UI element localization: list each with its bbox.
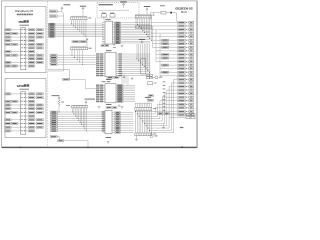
page background [0, 0, 200, 150]
wire S2 fan-out bus toward risers [136, 112, 174, 133]
U3 right pin bus wires with tiny labels [118, 53, 151, 76]
label osc small [160, 4, 165, 7]
capacitor C1 small box [148, 82, 157, 85]
MCU/CN pin row 10 [156, 53, 194, 55]
trimmer VR1 symbol [99, 10, 129, 17]
connector J2 pin row 2 with net labels [21, 97, 43, 99]
heading PIN number [19, 20, 29, 24]
MCU/CN pin row 3 [150, 28, 193, 30]
GPIO panel box [5, 79, 46, 138]
connector J2 pin row 10 with net labels [5, 126, 44, 128]
MCU/CN pin row 12 [156, 60, 194, 62]
MCU/CN pin row 1 [150, 21, 193, 23]
subheading 40pin [20, 24, 30, 27]
svg-text:MCU: MCU [181, 10, 187, 14]
connector J1 body [21, 28, 26, 70]
photocoupler PC1 bottom left [150, 135, 157, 138]
wire RN1 supply rail [71, 15, 87, 17]
connector J1 pin row 1 with net labels [5, 29, 44, 31]
net label near lower right [180, 127, 184, 128]
LED D1 with label [150, 76, 162, 79]
power flag +3V3 (RN5 supply) [145, 97, 151, 103]
wire RN5 top stubs [136, 103, 151, 107]
wire corner into lower section [70, 70, 96, 89]
MCU/CN pin row 5 [150, 36, 193, 38]
connector J1 pin row 7 with net labels [5, 50, 35, 52]
MCU/CN pin row 23 [160, 99, 194, 118]
connector J1 pin row 4 with net labels [5, 40, 35, 42]
wire RN2t supply rail [135, 13, 151, 15]
net label SCL [49, 13, 63, 17]
power flag +3V3 (RN2 top) [144, 6, 150, 14]
connector J2 pin row 6 with net labels [5, 111, 44, 113]
title interface (Japanese) [17, 14, 33, 16]
IC U4 (DIP) [102, 81, 119, 103]
connector J1 pin row 5 with net labels [5, 43, 44, 45]
MCU/CN pin row 14 [160, 68, 194, 70]
op-amp/IC U2 (DIP) [103, 19, 115, 44]
power flag +3V3 (module supply) [120, 2, 126, 9]
power flag +3V3 (R1 chain) [52, 95, 61, 100]
net label on corner wire [63, 78, 70, 80]
sheet border frame [2, 1, 198, 148]
connector J1 pin row 2 with net labels [5, 32, 44, 34]
wire RN3 staircase [72, 108, 87, 131]
MCU/CN pin row 13 [160, 64, 194, 66]
MCU/CN pin row 24 [158, 103, 194, 117]
connector J1 pin row 10 with net labels [5, 61, 44, 63]
wire U4 riser up [127, 77, 129, 86]
resistor network RN3 [72, 105, 88, 108]
crystal X1 circuit [151, 11, 177, 20]
MCU/CN pin row 2 [150, 25, 193, 27]
wire U5 to RN5 staircase [120, 112, 133, 132]
MCU/CN pin row 16 [160, 75, 194, 77]
title GD32 MCU line1 [175, 6, 192, 10]
MCU/CN pin row 9 [156, 50, 194, 52]
ground right of U4 [131, 77, 134, 80]
MCU/CN pin row 27 [170, 114, 194, 116]
wire RN2 staircase [72, 50, 83, 65]
MCU/CN pin row 4 [150, 32, 193, 34]
resistor R1 (zigzag) [58, 100, 64, 113]
wire dashed-module drop [95, 18, 97, 52]
wire long pair [48, 70, 70, 71]
connector J2 pin row 8 with net labels [5, 119, 44, 121]
MCU/CN pin row 18 [163, 81, 194, 130]
heading GPIO number [17, 84, 29, 88]
U5 right pin net labels [115, 112, 121, 134]
wire RN2 supply rail [71, 45, 88, 47]
svg-text:GD32E230-SG: GD32E230-SG [175, 6, 192, 10]
connector J1 pin row 8 with net labels [5, 54, 44, 56]
wire U3 drops to U4 [122, 72, 126, 84]
wire pull-up verticals into U3 bus (staircase) [137, 44, 151, 73]
svg-text:Raspberry Pi: Raspberry Pi [15, 9, 33, 13]
MCU/CN pin row 19 [163, 85, 194, 128]
power flag +3V3 (RN3 supply) [85, 99, 96, 106]
wire crystal into MCU [176, 13, 178, 22]
IC U2 label below and ground [101, 44, 123, 47]
MCU/CN pin row 11 [156, 57, 194, 59]
IC U3 (DIP) [103, 50, 118, 77]
MCU/CN pin row 22 [162, 96, 193, 121]
connector CN3 tail boxes [186, 113, 195, 118]
wire bus data lines to U5 (10 lines with labels) [50, 111, 104, 132]
connector J2 pin row 1 with net labels [5, 93, 44, 95]
power flag above U4 [123, 76, 125, 78]
connector J2 pin row 4 with net labels [5, 104, 44, 106]
wire node A elbow [57, 11, 63, 13]
wire RN5 supply rail [135, 102, 152, 104]
sheet section divider (dashed) [47, 1, 49, 147]
connector J1 pin row 11 with net labels [5, 65, 35, 67]
net labels above U5 [106, 107, 117, 109]
connector J2 pin row 11 with net labels [5, 130, 35, 132]
U4 right net labels and wires to RN5 area [117, 85, 135, 103]
net labels above CN3 tail [158, 113, 186, 118]
net label bottom-left pair [50, 136, 63, 142]
power flag above U5 [118, 105, 120, 107]
svg-text:PIN: PIN [19, 20, 24, 24]
connector J1 pin row 3 with net labels [5, 36, 44, 38]
wire RN5 verticals to RN8 [135, 110, 152, 133]
IC U5 (DIP) [103, 110, 114, 133]
MCU/CN pin row 8 [153, 46, 194, 48]
resistor network RN8 (bottom bar) [135, 133, 156, 136]
connector J1 pin row 6 with net labels [21, 47, 43, 49]
ground below RN8 [135, 136, 138, 141]
MCU/CN pin row 15 [160, 71, 194, 73]
resistor network RN1 [71, 17, 92, 20]
digital trimmer module box (dashed) [97, 3, 139, 18]
MCU/CN pin row 21 [163, 92, 194, 123]
net label above RN2 [72, 41, 87, 43]
connector J2 pin row 5 with net labels [5, 108, 44, 110]
IC U4 label below [98, 104, 124, 108]
wire to sheet edge [64, 141, 89, 148]
title GD32 MCU line2 [181, 10, 187, 14]
U3 left pin net labels (double column) [96, 53, 103, 76]
MCU/CN pin row 25 [155, 106, 193, 114]
connector J1 pin row 9 with net labels [21, 58, 43, 60]
Raspberry Pi interface panel box [5, 6, 46, 73]
wire vertical riser right-panel c [159, 33, 161, 76]
U2 right net labels and wire bus to MCU [115, 22, 151, 44]
power flag right of module [139, 39, 145, 42]
power flag +3V3 (RN2 supply flag) [86, 38, 88, 46]
wire vertical riser right-panel b [155, 30, 157, 62]
power flag +3V3 (node A) [61, 4, 71, 11]
net label SDA [49, 10, 57, 12]
MCU/CN pin row 20 [163, 89, 194, 126]
MCU/CN pin row 7 [153, 43, 194, 45]
resistor network RN7b (series row) [135, 26, 151, 29]
resistor network RN6 (row of pull-ups) [135, 15, 151, 18]
connector end boxes cluster [146, 74, 152, 79]
ground below trimmer module [113, 43, 116, 48]
title Raspberry Pi [15, 9, 33, 13]
resistor network RN2 [71, 47, 92, 50]
connector J2 pin row 3 with net labels [5, 100, 35, 102]
MCU/CN pin row 17 [174, 78, 194, 132]
wire vertical bus x63 [63, 16, 65, 71]
connector J2 pin row 9 with net labels [5, 122, 44, 124]
trimmer VR2 symbol [110, 13, 115, 17]
wire RN6 staircase junctions onto U2 bus [136, 18, 152, 41]
U2 left pin junction dots [102, 22, 105, 43]
wire trimmer to U2 [103, 17, 105, 21]
connector J2 pin row 7 with net labels [21, 115, 35, 117]
MCU/CN pin row 6 [153, 39, 194, 41]
wire vertical riser right-panel a [152, 26, 154, 47]
ground below U5 [107, 141, 110, 144]
wire RN1 pull-up staircase [71, 20, 86, 38]
IC U5 label below [106, 136, 112, 139]
svg-text:GPIO: GPIO [17, 84, 25, 88]
U4 left pin net labels (double column) [96, 85, 103, 103]
MCU/CN pin row 26 [153, 110, 194, 113]
subheading gpio note [20, 88, 30, 91]
wire RN3 supply rail [66, 104, 87, 107]
ground bottom right [162, 123, 165, 128]
IC U3 label below [106, 78, 112, 81]
resistor network RN5 (top bar) [135, 108, 156, 111]
wire bus GPIO lines to U2 (8 lines with net names) [48, 23, 103, 37]
power flag +3V3 (RN1 supply) [80, 6, 86, 17]
connector J2 body [21, 92, 26, 134]
resistor network RN7 (vertical bar) [141, 59, 146, 74]
border tick marks [20, 147, 183, 148]
wire bus I2C/SPI lines (5 lines with labels) [50, 54, 96, 65]
net labels above U4 [107, 77, 119, 79]
net label pair left of risers [148, 95, 153, 102]
